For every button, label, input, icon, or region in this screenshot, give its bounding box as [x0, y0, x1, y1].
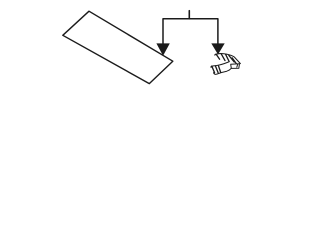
panel (tilted rectangle) [63, 11, 173, 83]
clip coil winding w3 [226, 54, 230, 61]
clip coil winding w5 [232, 58, 236, 64]
bracket tick [188, 11, 190, 19]
clip coil winding w4 [229, 55, 234, 62]
arrow to panel [156, 43, 169, 55]
clip foot inner line [236, 64, 239, 67]
bracket horizontal line with legs [163, 19, 218, 44]
clip coil winding w2 [221, 54, 225, 61]
clip foot box [231, 64, 240, 69]
clip roll winding u3 [219, 66, 221, 72]
clip roll winding u1 [212, 66, 215, 73]
clip roll winding u2 [215, 66, 218, 73]
clip left roll top line with curled end [211, 62, 229, 67]
arrow to clip [211, 43, 224, 54]
clip bottom silhouette curve [214, 68, 232, 74]
clip top silhouette arc and steep right descent [215, 54, 241, 64]
clip coil winding w1 [216, 54, 220, 59]
clip (rolled coil part) [211, 54, 241, 75]
